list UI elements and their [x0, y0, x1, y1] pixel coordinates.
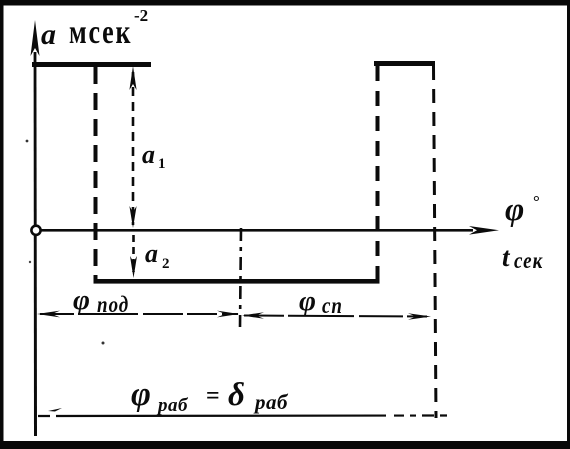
svg-text:а: а [41, 18, 56, 51]
well bottom line [94, 279, 380, 284]
speck noise marks [26, 140, 29, 143]
svg-text:=: = [206, 383, 220, 409]
phi_sp left arrowhead [242, 312, 264, 319]
svg-text:раб: раб [156, 395, 189, 416]
svg-text:φ: φ [299, 285, 316, 317]
phi_sp right arrowhead [408, 313, 431, 320]
svg-text:мсек: мсек [69, 13, 132, 51]
svg-text:под: под [97, 291, 129, 317]
x-axis (horizontal axis line) [41, 229, 473, 232]
svg-text:а: а [142, 140, 155, 169]
svg-text:φ: φ [131, 376, 151, 413]
svg-text:сек: сек [514, 247, 543, 273]
a2 dimension dashed line [132, 235, 135, 272]
right pulse right dashed vertical edge (extends to bottom dimension) [434, 66, 437, 418]
phi_pod dimension line [40, 313, 238, 315]
phi_pod right arrowhead [217, 311, 239, 318]
a1 dimension dashed line [132, 72, 135, 225]
phi_rab bottom dimension line [38, 414, 447, 417]
a1 arrowhead up [129, 66, 136, 90]
phi_pod left arrowhead [37, 311, 60, 318]
svg-text:δ: δ [228, 377, 245, 413]
x-axis arrowhead [469, 226, 499, 235]
svg-text:сп: сп [322, 292, 343, 318]
a2 arrowhead down [130, 256, 137, 278]
phi_sp dimension line [244, 316, 429, 317]
divider dashed vertical at phi_pod / phi_sp boundary [240, 228, 241, 327]
right pulse top line [374, 61, 435, 66]
svg-text:°: ° [533, 192, 540, 211]
y-axis arrowhead [31, 20, 40, 56]
left pulse dashed vertical edge [94, 67, 98, 280]
left pulse top line [32, 62, 151, 67]
svg-text:φ: φ [73, 284, 90, 316]
svg-text:φ: φ [505, 192, 524, 228]
svg-text:а: а [145, 239, 158, 268]
svg-text:раб: раб [253, 390, 289, 414]
y-axis (vertical axis line) [34, 52, 37, 436]
a1 arrowhead down [129, 206, 136, 228]
right pulse left dashed vertical edge [376, 66, 380, 279]
svg-text:1: 1 [158, 156, 166, 172]
svg-text:-2: -2 [134, 6, 148, 25]
svg-text:2: 2 [162, 256, 170, 272]
origin node circle [31, 226, 40, 235]
phi_rab small left arrow mark [48, 408, 62, 412]
